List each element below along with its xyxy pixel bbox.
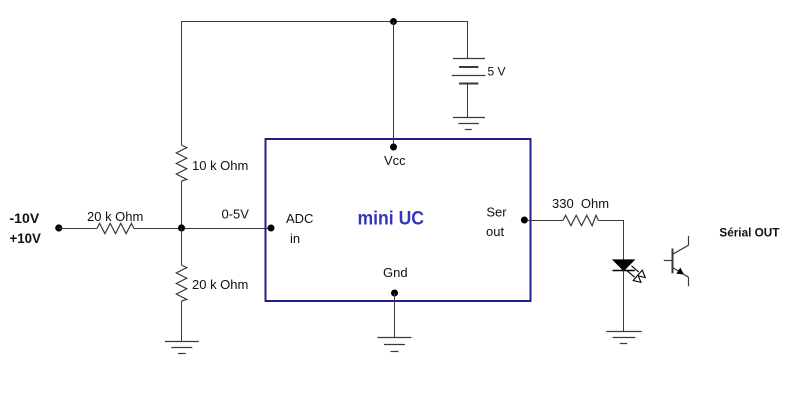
wire: R4 to LED corner: [599, 221, 624, 261]
node dot: input terminal: [55, 224, 62, 231]
ground: divider: [165, 342, 199, 354]
svg-text:20 k Ohm: 20 k Ohm: [87, 209, 143, 224]
svg-text:ADC: ADC: [286, 211, 313, 226]
svg-text:mini UC: mini UC: [358, 209, 425, 230]
svg-text:in: in: [290, 231, 300, 246]
LED D1 (diode triangle + cathode bar): [613, 260, 634, 271]
junction dot: top rail / Vcc branch: [390, 18, 397, 25]
pin dot: Ser out: [521, 217, 528, 224]
wire: R3 bottom to ground: [181, 301, 183, 342]
wire: R2 to ADC pin: [134, 228, 271, 230]
resistor R4 330 Ohm (horizontal zigzag): [563, 215, 599, 225]
svg-text:Gnd: Gnd: [383, 265, 408, 280]
junction dot: divider node: [178, 224, 185, 231]
wire: Gnd pin to ground: [394, 293, 396, 338]
wire: battery to ground: [467, 84, 469, 118]
emitter diagonal: [673, 268, 689, 278]
collector diagonal: [673, 245, 689, 254]
wire: top rail corner down to battery: [467, 22, 469, 59]
emitter lead down: [688, 277, 690, 286]
wire: divider junction down to R3: [181, 229, 183, 266]
wire: Ser out to R4: [527, 220, 563, 222]
resistor R1 10 k Ohm (vertical zigzag): [176, 145, 187, 181]
ground: battery: [453, 118, 485, 130]
LED emission arrow 1: [632, 266, 646, 278]
ground: LED: [606, 332, 642, 344]
wire: Vcc drop from top rail into IC: [393, 22, 395, 148]
battery V1: [452, 59, 486, 84]
svg-text:Vcc: Vcc: [384, 153, 406, 168]
phototransistor Q1: [664, 236, 689, 286]
svg-text:out: out: [486, 224, 504, 239]
svg-text:-10V: -10V: [10, 210, 40, 226]
base lead: [664, 260, 673, 262]
IC box U1 mini UC: [266, 139, 531, 301]
pin dot: ADC in: [268, 225, 275, 232]
svg-text:Ser: Ser: [486, 205, 507, 220]
collector lead up: [688, 236, 690, 245]
LED emission arrow 2: [627, 271, 641, 283]
wire: input node to R2: [59, 228, 97, 230]
svg-text:Sérial OUT: Sérial OUT: [719, 225, 780, 239]
pin dot: Gnd: [391, 290, 398, 297]
wire: R1 bottom to divider junction: [181, 181, 183, 229]
wire: left vertical from top rail down to resistor R1: [181, 22, 183, 146]
ground: IC Gnd: [378, 338, 412, 352]
svg-text:5 V: 5 V: [488, 65, 506, 79]
svg-text:20 k Ohm: 20 k Ohm: [192, 277, 248, 292]
pin dot: Vcc: [390, 144, 397, 151]
svg-text:10 k Ohm: 10 k Ohm: [192, 158, 248, 173]
svg-text:+10V: +10V: [10, 230, 42, 246]
wire: top rail from left vertical to battery branch: [181, 21, 468, 23]
base bar: [672, 249, 674, 274]
svg-text:330 Ohm: 330 Ohm: [552, 196, 609, 211]
resistor R2 20 k Ohm (horizontal zigzag): [97, 223, 134, 233]
emitter arrowhead: [676, 268, 684, 275]
svg-text:0-5V: 0-5V: [222, 207, 250, 222]
resistor R3 20 k Ohm (vertical zigzag to ground): [176, 265, 187, 301]
wire: LED to ground: [623, 271, 625, 332]
